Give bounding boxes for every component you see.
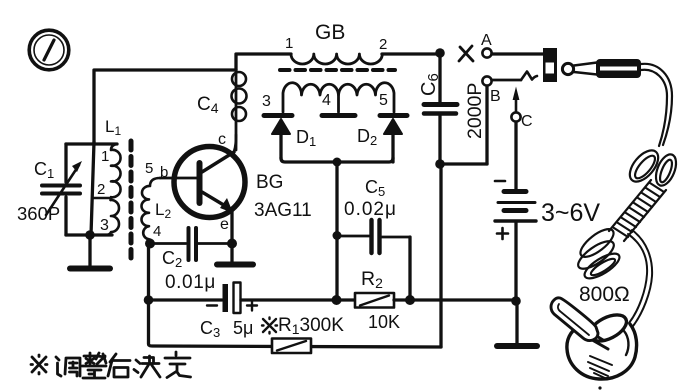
wire: C4 node up to GB pin1 xyxy=(236,54,291,70)
svg-text:D1: D1 xyxy=(296,127,316,149)
inductor L2 xyxy=(141,178,160,242)
svg-text:360P: 360P xyxy=(17,203,60,224)
wire: C down to battery xyxy=(514,122,517,189)
wire: detector output rail (D1 to D2 bottoms) xyxy=(281,158,393,162)
pin 4 terminal bar xyxy=(322,113,355,118)
terminal B xyxy=(482,76,491,85)
wire: C6 node to B line xyxy=(440,162,487,165)
svg-text:3: 3 xyxy=(262,93,271,110)
ground left xyxy=(70,235,110,269)
ground right xyxy=(497,301,537,346)
wire: tap4 node down to AF rail xyxy=(147,244,150,301)
svg-text:C5: C5 xyxy=(365,177,385,199)
earphone cord to receiver xyxy=(628,230,652,326)
svg-text:1: 1 xyxy=(101,148,109,165)
svg-text:e: e xyxy=(220,216,229,233)
resistor R2 xyxy=(355,293,394,308)
phone jack socket xyxy=(543,48,557,82)
svg-text:C1: C1 xyxy=(34,159,54,181)
svg-text:L1: L1 xyxy=(105,117,121,138)
svg-text:5μ: 5μ xyxy=(233,318,253,338)
svg-text:C4: C4 xyxy=(197,94,219,116)
svg-text:A: A xyxy=(481,32,492,49)
junction dot R2 right xyxy=(405,295,415,305)
svg-text:5: 5 xyxy=(145,160,153,177)
transformer GB core (dashed) xyxy=(280,68,395,72)
char zheng xyxy=(84,353,96,364)
earphone receiver xyxy=(567,310,637,390)
junction dot tank bottom xyxy=(85,230,95,240)
terminal A xyxy=(482,48,491,57)
junction dot C5 tee xyxy=(333,231,342,240)
diode D2 xyxy=(380,116,407,163)
earphone cord from plug xyxy=(641,64,672,146)
svg-text:4: 4 xyxy=(322,92,331,109)
junction dot R2 left xyxy=(332,295,342,305)
note text: decided after adjustment xyxy=(31,352,191,378)
svg-text:0.01μ: 0.01μ xyxy=(165,272,216,293)
svg-text:3AG11: 3AG11 xyxy=(254,200,312,221)
wire: base lead xyxy=(160,177,197,180)
svg-text:GB: GB xyxy=(315,21,345,44)
wire: AF rail right segment xyxy=(394,298,516,301)
earphone stem xyxy=(551,298,598,341)
junction dot AF rail left xyxy=(144,295,154,305)
capacitor C2 xyxy=(150,228,232,260)
wire: B to switch contact xyxy=(492,72,537,81)
switch arrow at C xyxy=(513,87,520,112)
wire: antenna rail from tank top to C4 node xyxy=(94,70,236,142)
junction dot L2 tap4 xyxy=(145,239,155,249)
wire: detector rail down to AF rail xyxy=(335,162,338,300)
wire: antenna vertical through tank xyxy=(91,142,94,235)
char ding xyxy=(165,352,191,378)
transformer GB primary winding xyxy=(291,54,436,64)
wire: B line up xyxy=(485,86,488,164)
wire: A to jack xyxy=(492,52,543,55)
svg-text:C3: C3 xyxy=(200,318,220,340)
capacitor C6 xyxy=(424,53,457,164)
svg-text:2: 2 xyxy=(97,181,105,198)
ground emitter xyxy=(217,243,253,265)
diode D1 xyxy=(264,116,292,159)
junction dot detector rail xyxy=(333,158,342,167)
svg-text:10K: 10K xyxy=(368,312,400,332)
capacitor C3 (electrolytic) xyxy=(207,283,257,314)
svg-text:L2: L2 xyxy=(155,200,171,221)
svg-text:3: 3 xyxy=(100,217,109,234)
wire: AF rail left segment xyxy=(149,298,223,301)
wire: battery plus to AF rail xyxy=(514,222,517,301)
svg-text:C2: C2 xyxy=(162,248,182,270)
char hou xyxy=(108,354,130,377)
svg-text:R2: R2 xyxy=(361,268,383,291)
svg-text:2000P: 2000P xyxy=(464,83,486,139)
svg-text:2: 2 xyxy=(379,36,387,53)
wire: tank top rail xyxy=(66,142,117,145)
capacitor C4 (drawn as three small loops) xyxy=(232,70,247,150)
svg-text:B: B xyxy=(490,88,501,105)
svg-text:4: 4 xyxy=(153,223,161,240)
transformer GB secondary winding xyxy=(283,83,394,112)
wire: bottom feedback rail xyxy=(149,300,442,347)
svg-text:0.02μ: 0.02μ xyxy=(344,199,397,220)
char tiao xyxy=(56,357,61,376)
svg-text:D2: D2 xyxy=(357,126,377,148)
reference mark for R1 xyxy=(262,318,277,334)
battery GB1 3~6V xyxy=(495,181,536,239)
svg-text:800Ω: 800Ω xyxy=(579,283,630,306)
wire: AF rail mid segment xyxy=(241,298,355,301)
transformer core dashed (L1/L2) xyxy=(129,141,134,258)
transistor BG (3AG11) xyxy=(174,135,245,243)
breakpoint X mark xyxy=(459,46,473,61)
svg-text:C: C xyxy=(521,113,533,130)
svg-text:c: c xyxy=(218,131,226,148)
capacitor C5 xyxy=(337,220,410,300)
reference mark xyxy=(32,357,46,372)
inductor L1 xyxy=(94,144,121,235)
svg-text:BG: BG xyxy=(256,172,283,193)
svg-text:5: 5 xyxy=(379,92,388,109)
svg-text:C6: C6 xyxy=(418,73,442,96)
svg-text:3~6V: 3~6V xyxy=(541,199,600,227)
wire: tank bottom rail xyxy=(66,233,112,236)
junction dot C6 bottom xyxy=(435,159,445,169)
junction dot battery node xyxy=(511,296,521,306)
svg-text:R1300K: R1300K xyxy=(278,315,344,337)
terminal C xyxy=(511,112,520,121)
junction dot antenna node xyxy=(435,48,445,58)
char jue xyxy=(134,360,140,373)
phone plug xyxy=(562,59,641,78)
earphone cord hank xyxy=(574,145,680,283)
logo mark (circled slash stamp, top-left) xyxy=(29,30,69,70)
junction dot emitter node xyxy=(227,239,237,249)
wire: C6 node down to bottom rail xyxy=(439,164,442,347)
resistor R1 xyxy=(272,339,311,354)
variable capacitor C1 xyxy=(42,144,82,235)
svg-text:1: 1 xyxy=(285,35,293,52)
